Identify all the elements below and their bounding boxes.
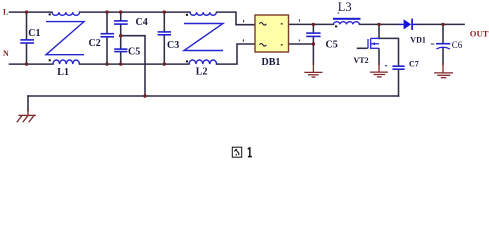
- svg-text:VD1: VD1: [410, 36, 426, 45]
- svg-text:C5: C5: [128, 46, 140, 57]
- svg-text:L3: L3: [338, 0, 352, 14]
- svg-text:VT2: VT2: [354, 56, 369, 65]
- svg-text:C5: C5: [326, 40, 338, 51]
- svg-text:C2: C2: [89, 38, 101, 49]
- svg-text:C7: C7: [409, 60, 419, 69]
- svg-text:C1: C1: [28, 28, 40, 39]
- svg-text:L2: L2: [196, 67, 208, 78]
- svg-text:C6: C6: [452, 40, 463, 50]
- svg-text:OUT: OUT: [470, 28, 489, 38]
- svg-text:DB1: DB1: [262, 57, 281, 68]
- svg-text:L1: L1: [57, 67, 69, 78]
- svg-text:C3: C3: [167, 40, 179, 51]
- svg-text:N: N: [3, 49, 9, 58]
- svg-text:C4: C4: [136, 17, 148, 28]
- svg-text:L: L: [3, 8, 8, 17]
